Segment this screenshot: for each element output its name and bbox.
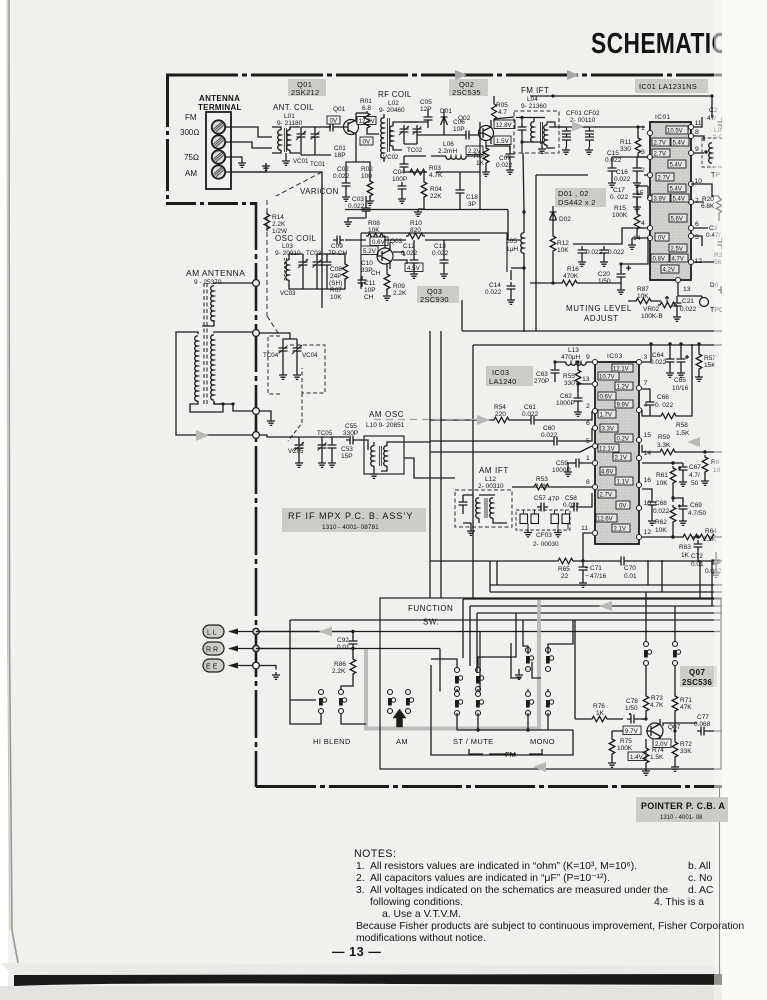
wire Q01 drain rail (346, 141, 370, 176)
svg-text:1: 1 (641, 125, 645, 132)
terminal AM (212, 165, 225, 178)
0V box at Q01 gate (327, 116, 340, 125)
svg-text:C14: C14 (489, 282, 501, 289)
IC01 left pins (647, 130, 652, 240)
svg-text:R04: R04 (430, 186, 442, 193)
svg-text:E E: E E (206, 664, 218, 671)
arrows to terminals (228, 629, 238, 669)
svg-text:C63: C63 (536, 371, 548, 378)
svg-text:0.022: 0.022 (432, 250, 449, 257)
svg-text:3.3K: 3.3K (657, 442, 671, 449)
svg-text:AM: AM (185, 169, 197, 178)
ground on EE (272, 672, 280, 679)
svg-text:10P: 10P (453, 126, 465, 133)
svg-text:1310 - 4001- 08: 1310 - 4001- 08 (660, 815, 703, 821)
svg-text:0.022: 0.022 (680, 306, 697, 313)
switch MONO upper (526, 648, 554, 672)
svg-text:C05: C05 (420, 99, 432, 106)
svg-text:5.6V: 5.6V (671, 217, 683, 223)
svg-text:6: 6 (586, 420, 590, 427)
svg-text:33K: 33K (680, 748, 692, 755)
terminal FM (212, 120, 225, 133)
svg-text:9: 9 (586, 354, 590, 361)
svg-text:POINTER P. C.B. A: POINTER P. C.B. A (641, 801, 725, 811)
svg-text:5.2V: 5.2V (363, 248, 377, 255)
svg-text:2.7V: 2.7V (654, 152, 666, 158)
svg-text:100K: 100K (617, 745, 633, 752)
node circle at 256,333 (253, 330, 260, 337)
node circle at 256,283 (253, 280, 260, 287)
switch ST/MUTE upper (455, 668, 484, 692)
svg-text:VC01: VC01 (293, 158, 309, 165)
switch interconnect wires (431, 665, 573, 755)
svg-text:L06: L06 (443, 141, 454, 148)
AM select arrow (393, 709, 406, 727)
svg-text:0.01: 0.01 (691, 561, 704, 568)
svg-text:ANTENNA: ANTENNA (199, 94, 240, 103)
main PCB border top edge (166, 74, 767, 77)
svg-text:C21: C21 (682, 298, 694, 305)
svg-text:10.7V: 10.7V (599, 375, 615, 381)
pin11 wire and bottom parts (430, 533, 592, 561)
svg-text:ANT. COIL: ANT. COIL (273, 103, 314, 112)
svg-text:1/50: 1/50 (625, 705, 638, 712)
ground at mono upper (518, 669, 520, 672)
svg-text:22: 22 (561, 573, 569, 580)
gnd under coil (285, 153, 287, 158)
label Q02 2SC535 (449, 79, 488, 97)
svg-text:CH: CH (371, 270, 381, 277)
svg-text:4: 4 (641, 220, 645, 227)
svg-text:IC01: IC01 (655, 114, 671, 121)
svg-text:R62: R62 (655, 519, 667, 526)
switch ST/MUTE lower (455, 692, 484, 716)
terminal RR (203, 642, 224, 655)
svg-text:9- 20460: 9- 20460 (379, 107, 405, 114)
svg-text:ADJUST: ADJUST (584, 314, 619, 323)
svg-text:0.022: 0.022 (485, 289, 502, 296)
svg-text:CF03: CF03 (536, 532, 552, 539)
svg-text:C62: C62 (560, 393, 572, 400)
left page edge line (9, 0, 18, 963)
svg-text:L12: L12 (485, 476, 496, 483)
svg-text:330: 330 (564, 380, 575, 387)
svg-text:1.5K: 1.5K (676, 430, 690, 437)
svg-text:0V: 0V (619, 504, 626, 510)
main PCB border mid vertical (255, 202, 258, 787)
terminal EE (203, 659, 224, 672)
wire 75ohm to gnd (225, 157, 242, 160)
am ift dashed box (455, 490, 512, 527)
antenna terminal box (206, 112, 231, 189)
right page margin lighter strip (726, 0, 767, 1000)
svg-text:CF01 CF02: CF01 CF02 (566, 110, 600, 117)
right page fold line (719, 788, 721, 975)
svg-text:14: 14 (644, 450, 652, 457)
notes block (354, 848, 744, 944)
trimmer TC01 (311, 130, 320, 141)
svg-text:AM: AM (396, 737, 408, 746)
svg-text:47P: 47P (548, 496, 560, 503)
svg-text:+: + (585, 565, 589, 572)
svg-text:R59: R59 (658, 434, 670, 441)
svg-text:2.7V: 2.7V (654, 141, 666, 147)
svg-text:100K: 100K (612, 212, 628, 219)
svg-text:C77: C77 (697, 714, 709, 721)
svg-text:2.: 2. (356, 873, 365, 884)
svg-text:10/16: 10/16 (672, 385, 689, 392)
svg-text:TC01: TC01 (310, 161, 326, 168)
switch MONO lower (526, 692, 554, 716)
svg-text:NOTES:: NOTES: (354, 848, 396, 860)
pin14 wire (642, 462, 683, 464)
svg-text:D01 , 02: D01 , 02 (558, 189, 589, 198)
svg-text:9: 9 (695, 146, 699, 153)
svg-text:5.4V: 5.4V (670, 187, 682, 193)
svg-text:C71: C71 (590, 565, 602, 572)
transformer primary left (195, 336, 198, 401)
terminal LL (203, 625, 224, 638)
svg-text:10K: 10K (655, 527, 667, 534)
svg-text:11: 11 (695, 120, 702, 127)
svg-text:13: 13 (582, 376, 590, 383)
svg-text:0.022: 0.022 (608, 249, 625, 256)
svg-text:R63: R63 (679, 544, 691, 551)
svg-text:SCHEMATIC: SCHEMATIC (591, 29, 728, 60)
mid horizontal wires (256, 620, 720, 649)
svg-text:C03: C03 (352, 196, 364, 203)
2.2V box (466, 146, 483, 155)
svg-text:VC02: VC02 (383, 154, 399, 161)
svg-text:220: 220 (495, 411, 506, 418)
svg-text:R58: R58 (676, 422, 688, 429)
terminal 75ohm (212, 150, 225, 163)
svg-text:L L: L L (207, 630, 217, 637)
top rail dots (649, 342, 652, 345)
svg-text:AM IFT: AM IFT (479, 466, 509, 475)
svg-text:DS442 x 2: DS442 x 2 (558, 198, 596, 207)
svg-text:C17: C17 (613, 187, 625, 194)
svg-text:FM IFT: FM IFT (521, 86, 549, 95)
svg-text:6.8: 6.8 (362, 105, 371, 112)
wire AM terminal down (225, 163, 266, 172)
svg-text:TC04: TC04 (263, 352, 279, 359)
bottom black band (book spine) (14, 972, 767, 986)
am ift transformer L12 (463, 495, 507, 535)
cap C01 (326, 123, 337, 132)
svg-text:3.: 3. (356, 885, 365, 896)
terminal 300ohm (212, 135, 225, 148)
svg-text:6: 6 (695, 221, 699, 228)
svg-text:D02: D02 (559, 216, 571, 223)
potentiometer VR02 (641, 297, 677, 321)
pin6 wire (430, 428, 592, 441)
svg-text:R R: R R (206, 647, 218, 654)
svg-text:L02: L02 (388, 100, 399, 107)
varicon cap VC02 (399, 125, 409, 136)
svg-text:L10 9- 20851: L10 9- 20851 (366, 422, 405, 429)
transformer secondary right (211, 332, 256, 400)
svg-text:100P: 100P (392, 176, 407, 183)
svg-text:C16: C16 (616, 169, 628, 176)
svg-text:TC02: TC02 (407, 147, 423, 154)
svg-text:L01: L01 (284, 113, 295, 120)
svg-text:R11: R11 (620, 139, 632, 146)
svg-text:VARICON: VARICON (300, 187, 339, 196)
mixer rail (345, 122, 520, 240)
svg-text:300Ω: 300Ω (180, 128, 200, 137)
svg-text:12P: 12P (420, 106, 432, 113)
svg-text:Q07: Q07 (668, 724, 681, 731)
svg-text:C58: C58 (565, 495, 577, 502)
IC03 body (595, 362, 639, 544)
osc row wires (289, 254, 345, 289)
wire ift to IC01 pin1 (549, 126, 645, 128)
svg-text:12.1V: 12.1V (599, 447, 615, 453)
label RF IF MPX PCB ASSY (282, 508, 426, 532)
pin12 wire (642, 536, 681, 538)
svg-text:330: 330 (620, 146, 631, 153)
4.5V box (405, 263, 423, 272)
fm ift transformer L04 (516, 116, 555, 153)
diode D01 (440, 108, 452, 125)
svg-text:OSC COIL: OSC COIL (275, 234, 317, 243)
svg-text:C01: C01 (334, 145, 346, 152)
ceramic filter CF01 (560, 127, 573, 154)
svg-text:R15: R15 (614, 205, 626, 212)
svg-text:8: 8 (695, 129, 699, 136)
svg-text:0.022: 0.022 (614, 176, 631, 183)
page right edge overlay (722, 0, 767, 1000)
12.3V box (357, 117, 376, 126)
IC03 right pins (636, 359, 641, 539)
label Q03 2SC930 (417, 286, 459, 304)
svg-text:15P: 15P (341, 453, 353, 460)
node circles on mid bus (253, 628, 259, 634)
svg-text:9.9V: 9.9V (617, 403, 629, 409)
svg-text:9.7V: 9.7V (625, 728, 639, 735)
svg-text:R02: R02 (361, 166, 373, 173)
test point TPO (700, 298, 709, 307)
svg-text:D01: D01 (440, 108, 452, 115)
svg-text:1μH: 1μH (506, 246, 518, 253)
varicon dashed link box (268, 336, 325, 394)
varicon cap VC01 (296, 130, 306, 141)
svg-text:0.022: 0.022 (541, 432, 558, 439)
svg-text:5: 5 (695, 234, 699, 241)
ground at 75ohm (238, 160, 246, 167)
svg-text:TERMINAL: TERMINAL (198, 103, 242, 112)
svg-text:Q07: Q07 (689, 668, 705, 677)
gray signal arrow top (572, 122, 584, 132)
12.8V box (494, 120, 515, 129)
svg-text:2.2K: 2.2K (393, 290, 407, 297)
faint dashed line (374, 419, 477, 421)
svg-text:R76: R76 (593, 703, 605, 710)
svg-text:2.2K: 2.2K (332, 668, 346, 675)
pin2 wire (430, 411, 592, 420)
svg-text:0V: 0V (658, 236, 665, 242)
bus verticals right (648, 560, 712, 606)
svg-text:0.01: 0.01 (624, 573, 637, 580)
svg-text:0.068: 0.068 (694, 721, 711, 728)
function box (380, 598, 721, 769)
svg-text:R55: R55 (563, 373, 575, 380)
svg-text:1.4V: 1.4V (630, 754, 644, 761)
svg-text:4.7: 4.7 (498, 109, 507, 116)
mixer box outline (361, 233, 507, 289)
svg-text:6.8K: 6.8K (701, 203, 715, 210)
svg-text:(SH): (SH) (329, 280, 342, 287)
svg-text:24P: 24P (330, 273, 342, 280)
svg-text:1K: 1K (681, 552, 690, 559)
svg-text:9- 21360: 9- 21360 (521, 103, 547, 110)
svg-text:C15: C15 (607, 150, 619, 157)
svg-text:470μH: 470μH (561, 354, 581, 361)
svg-text:0.022: 0.022 (653, 508, 670, 515)
svg-text:C60: C60 (543, 425, 555, 432)
svg-text:TC05: TC05 (317, 430, 333, 437)
svg-text:LA1240: LA1240 (489, 377, 517, 386)
switch AM (388, 690, 414, 714)
svg-text:C61: C61 (524, 404, 536, 411)
svg-text:C78: C78 (626, 698, 638, 705)
IC01 pin numbers (633, 120, 702, 293)
5.2V box (361, 246, 378, 255)
q07 feed wires (575, 592, 675, 719)
svg-text:5.4V: 5.4V (670, 163, 682, 169)
svg-text:9- 21180: 9- 21180 (277, 120, 303, 127)
svg-text:VC04: VC04 (302, 352, 318, 359)
svg-text:3P: 3P (468, 201, 476, 208)
IC03 voltage boxes (596, 364, 633, 533)
svg-text:modifications without notice.: modifications without notice. (356, 933, 486, 944)
mute subsection border (536, 175, 588, 331)
svg-text:R54: R54 (494, 404, 506, 411)
bus lines to right edge (463, 585, 722, 613)
svg-text:C57: C57 (534, 495, 546, 502)
ferrite core dashed (203, 283, 205, 404)
svg-text:CH: CH (364, 294, 374, 301)
label Q07 2SC536 (680, 666, 717, 687)
svg-text:3: 3 (644, 354, 648, 361)
svg-text:4.6V: 4.6V (601, 470, 613, 476)
svg-text:2.2mH: 2.2mH (438, 148, 457, 155)
svg-text:0.01: 0.01 (337, 644, 350, 651)
svg-text:R53: R53 (536, 476, 548, 483)
pointer pcb label (636, 797, 728, 822)
svg-text:2.7V: 2.7V (600, 493, 612, 499)
wire FM terminal to coil (225, 127, 272, 137)
svg-text:0.6V: 0.6V (600, 395, 612, 401)
hi blend wires (290, 700, 366, 724)
svg-text:L13: L13 (568, 347, 579, 354)
svg-text:C72: C72 (691, 553, 703, 560)
pin16 wire (642, 489, 652, 498)
svg-text:1: 1 (586, 455, 590, 462)
svg-text:5.4V: 5.4V (673, 197, 685, 203)
svg-text:C67: C67 (689, 464, 701, 471)
svg-text:R01: R01 (360, 98, 372, 105)
svg-text:0.022: 0.022 (650, 359, 667, 366)
svg-text:R61: R61 (656, 472, 668, 479)
varicon cap VC03 (298, 258, 308, 269)
svg-text:L05: L05 (506, 238, 517, 245)
ant coil L01 (272, 127, 300, 153)
9.7V box (623, 726, 641, 735)
svg-text:R12: R12 (557, 240, 569, 247)
svg-text:R73: R73 (651, 695, 663, 702)
svg-text:2.1V: 2.1V (614, 527, 626, 533)
svg-text:SW.: SW. (423, 618, 439, 627)
svg-text:IC03: IC03 (492, 368, 509, 377)
switch HI BLEND (319, 690, 347, 714)
svg-text:1.1V: 1.1V (617, 480, 629, 486)
svg-text:R14: R14 (272, 214, 284, 221)
svg-text:8: 8 (586, 479, 590, 486)
svg-text:AM OSC: AM OSC (369, 410, 404, 419)
svg-text:1K: 1K (596, 710, 605, 717)
svg-text:R10: R10 (410, 220, 422, 227)
svg-text:3: 3 (641, 149, 645, 156)
label IC03 LA1240 (486, 366, 533, 386)
svg-text:12.8V: 12.8V (496, 122, 513, 129)
switch right pair (644, 642, 681, 666)
svg-text:R71: R71 (680, 697, 692, 704)
svg-text:— 13 —: — 13 — (332, 945, 381, 959)
am osc wires (259, 435, 368, 460)
svg-text:C68: C68 (655, 500, 667, 507)
svg-text:−: − (585, 573, 589, 580)
svg-text:16: 16 (644, 477, 652, 484)
svg-text:VR02: VR02 (643, 306, 660, 313)
svg-text:22K: 22K (430, 193, 442, 200)
svg-text:RF IF MPX P.C. B. ASS’Y: RF IF MPX P.C. B. ASS’Y (288, 511, 413, 521)
svg-text:0.8V: 0.8V (653, 257, 665, 263)
svg-text:R72: R72 (680, 741, 692, 748)
svg-text:d. AC: d. AC (688, 885, 714, 896)
svg-text:75Ω: 75Ω (184, 153, 199, 162)
svg-text:C66: C66 (657, 394, 669, 401)
svg-text:2- 00310: 2- 00310 (478, 483, 504, 490)
svg-text:HI BLEND: HI BLEND (313, 737, 351, 746)
transistor Q07 (646, 719, 681, 742)
svg-text:C69: C69 (690, 502, 702, 509)
svg-text:2SC536: 2SC536 (682, 678, 712, 687)
svg-text:C18: C18 (466, 194, 478, 201)
svg-text:2.2K: 2.2K (272, 221, 286, 228)
svg-text:18P: 18P (334, 152, 346, 159)
ceramic filter CF02 (583, 127, 596, 154)
pin5 wire (430, 446, 592, 452)
wire Q02 to ift (494, 96, 514, 122)
svg-text:C92: C92 (337, 637, 349, 644)
svg-text:0. 022: 0. 022 (655, 402, 673, 409)
svg-text:0V: 0V (363, 139, 371, 146)
svg-text:a. Use a V.T.V.M.: a. Use a V.T.V.M. (382, 909, 461, 920)
svg-text:50: 50 (691, 480, 699, 487)
B+ rail (530, 96, 712, 118)
svg-text:3.3V: 3.3V (602, 427, 614, 433)
svg-text:R86: R86 (334, 661, 346, 668)
svg-text:c. No: c. No (688, 873, 712, 884)
svg-text:1000P: 1000P (556, 400, 575, 407)
main PCB border left edge (166, 75, 169, 203)
svg-text:C20: C20 (598, 271, 610, 278)
svg-text:R07: R07 (330, 287, 342, 294)
IC03 pin numbers (581, 354, 651, 536)
transistor Q03 (377, 238, 403, 269)
